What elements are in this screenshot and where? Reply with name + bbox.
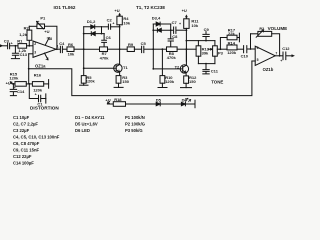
node A junction	[83, 27, 85, 68]
svg-text:10k: 10k	[191, 23, 198, 28]
svg-text:+: +	[35, 92, 37, 96]
svg-text:+U: +U	[114, 8, 119, 13]
svg-text:R1: R1	[17, 39, 23, 44]
svg-text:OZ1a: OZ1a	[35, 64, 46, 69]
svg-text:C3 22µF: C3 22µF	[13, 128, 30, 133]
svg-text:P1 100k/N: P1 100k/N	[125, 115, 145, 120]
bias rail to OZ1b pin 5	[29, 61, 252, 96]
op-amp bias column (pin 3 to bias node)	[28, 54, 30, 84]
svg-text:D1,2: D1,2	[87, 19, 96, 24]
capacitor C8 470p	[168, 30, 178, 47]
svg-text:R16: R16	[34, 72, 42, 77]
resistor R10 120k	[158, 48, 175, 87]
svg-text:D3,4: D3,4	[152, 15, 161, 20]
svg-text:5: 5	[257, 58, 259, 62]
svg-text:150: 150	[189, 79, 196, 84]
svg-text:OZ1b: OZ1b	[263, 67, 274, 72]
svg-text:C14: C14	[17, 89, 25, 94]
supply +U with resistor R11 10k	[182, 8, 200, 61]
resistor R13 39k	[196, 41, 210, 64]
svg-text:+U: +U	[182, 8, 187, 13]
capacitor C2 2,2u	[102, 17, 120, 29]
svg-text:T1: T1	[123, 65, 128, 70]
resistor R15 120k	[9, 72, 32, 87]
capacitor C9	[203, 27, 210, 40]
svg-text:6: 6	[257, 46, 259, 50]
svg-text:C8: C8	[172, 34, 178, 39]
svg-text:D6: D6	[182, 97, 188, 102]
svg-text:120k: 120k	[227, 50, 237, 55]
resistor R5 120k	[80, 68, 96, 85]
wire node C to R8	[153, 48, 166, 50]
svg-text:C5: C5	[141, 41, 147, 46]
resistor R7 470k	[100, 47, 110, 61]
svg-text:C7: C7	[172, 20, 178, 25]
parts list column 2	[75, 115, 105, 133]
wire node B to R9	[120, 48, 128, 50]
node A1 (inverting input junction)	[28, 45, 33, 47]
parts list column 1	[13, 115, 60, 166]
svg-text:R6: R6	[68, 42, 74, 47]
svg-text:D5: D5	[156, 97, 162, 102]
supply +U with resistor R4 10k	[114, 8, 130, 64]
diode D4	[152, 15, 174, 32]
op-amp OZ1a	[29, 29, 59, 68]
resistor R18	[113, 97, 155, 106]
svg-text:C6: C6	[106, 35, 112, 40]
svg-text:P2: P2	[259, 26, 265, 31]
diode D2	[83, 19, 104, 36]
svg-text:IO1 TL062: IO1 TL062	[54, 5, 76, 10]
label TONE	[211, 80, 223, 85]
svg-text:R2: R2	[24, 26, 30, 31]
svg-text:1,2k: 1,2k	[18, 48, 27, 53]
svg-text:+: +	[112, 21, 114, 25]
potentiometer P2 VOLUME	[251, 26, 288, 56]
svg-text:C10: C10	[241, 54, 249, 59]
capacitor C14 100u	[10, 83, 25, 96]
svg-text:R18: R18	[114, 97, 122, 102]
tone bottom wire	[198, 63, 215, 65]
transistor T2	[175, 49, 189, 73]
svg-text:8: 8	[50, 37, 52, 41]
wire R8 to node D	[177, 48, 186, 50]
svg-text:C4, C5, C10, C13 100nF: C4, C5, C10, C13 100nF	[13, 135, 60, 140]
svg-text:1,2k: 1,2k	[19, 32, 28, 37]
capacitor C13	[11, 45, 27, 59]
wire node E to R14	[220, 48, 227, 50]
LED circuit: +U arrow	[105, 97, 113, 104]
svg-text:120k: 120k	[86, 79, 96, 84]
label DISTORTION	[30, 106, 59, 111]
svg-text:C9: C9	[204, 27, 210, 32]
resistor R1 1,2k	[17, 39, 29, 54]
svg-text:39k: 39k	[202, 50, 209, 55]
svg-text:P3: P3	[218, 51, 224, 56]
T1 base wire from node A column	[83, 67, 114, 69]
svg-text:C12 22µF: C12 22µF	[13, 154, 32, 159]
svg-text:R14: R14	[228, 40, 236, 45]
svg-text:C9, C11 15nF: C9, C11 15nF	[13, 148, 40, 153]
resistor R16 120k with end bar	[32, 72, 48, 92]
svg-text:10k: 10k	[68, 51, 75, 56]
capacitor C1 10u with end bar	[29, 84, 46, 107]
svg-text:C12: C12	[282, 46, 290, 51]
resistor R14 120k	[227, 40, 237, 54]
capacitor C11	[203, 64, 219, 74]
node F (OZ1b inverting input)	[250, 34, 252, 50]
wire node A to R7	[84, 48, 100, 50]
resistor R3 150	[114, 72, 130, 88]
resistor R17 22k with end bar	[220, 27, 239, 49]
svg-text:C14 100µF: C14 100µF	[13, 161, 34, 166]
potentiometer P3	[208, 41, 223, 64]
capacitor C3	[4, 39, 18, 49]
resistor R2 1,2k	[19, 26, 32, 46]
svg-text:DISTORTION: DISTORTION	[30, 106, 59, 111]
parts list column 3	[125, 115, 145, 133]
resistor R6 10k	[67, 42, 84, 57]
input terminal arrow	[0, 44, 7, 47]
op-amp OZ1b	[252, 46, 278, 72]
svg-text:3: 3	[34, 50, 36, 54]
title IO1 TL062	[54, 5, 76, 10]
node E junction	[220, 48, 222, 50]
svg-text:120k: 120k	[9, 76, 19, 81]
svg-text:VOLUME: VOLUME	[268, 26, 288, 31]
svg-text:C6, C8 470pF: C6, C8 470pF	[13, 141, 40, 146]
svg-text:+U: +U	[6, 81, 11, 86]
capacitor C7 2,2u	[172, 20, 187, 33]
resistor R8 470k	[167, 47, 178, 60]
tone rail	[186, 40, 215, 42]
T2 base wire from node C column	[152, 68, 180, 70]
capacitor C12 22u	[280, 46, 291, 63]
svg-text:120k: 120k	[165, 79, 175, 84]
svg-text:+: +	[179, 22, 181, 26]
main line through tone section	[186, 48, 220, 50]
output terminal arrow	[292, 54, 295, 57]
svg-text:C2, C7 2,2µF: C2, C7 2,2µF	[13, 122, 38, 127]
svg-text:150: 150	[122, 79, 129, 84]
title T1, T2 KC238	[136, 5, 165, 10]
potentiometer P1	[29, 16, 57, 50]
capacitor C6 470p	[102, 34, 112, 47]
svg-text:T1, T2 KC238: T1, T2 KC238	[136, 5, 165, 10]
svg-text:C11: C11	[211, 68, 219, 73]
svg-text:+: +	[11, 41, 13, 45]
svg-text:470k: 470k	[100, 55, 110, 60]
svg-text:C3: C3	[4, 39, 10, 44]
capacitor C10	[237, 46, 255, 59]
capacitor C4	[59, 41, 67, 53]
diode D5	[156, 97, 181, 105]
svg-text:+U: +U	[44, 29, 49, 34]
bias node junction	[28, 83, 30, 85]
diode D3	[153, 22, 170, 26]
svg-text:22k: 22k	[228, 31, 235, 36]
output wire with junction	[275, 55, 283, 57]
svg-text:D6 LED: D6 LED	[75, 128, 90, 133]
node C junction column	[152, 24, 154, 69]
wire op-amp output to C4	[56, 48, 60, 50]
svg-text:+U: +U	[105, 97, 110, 102]
svg-text:R9: R9	[128, 42, 134, 47]
svg-text:10k: 10k	[123, 20, 130, 25]
wire R7 to node B	[108, 48, 120, 50]
svg-text:P1: P1	[40, 16, 46, 21]
svg-text:C1 10µF: C1 10µF	[13, 115, 30, 120]
svg-text:C4: C4	[59, 41, 65, 46]
svg-text:TONE: TONE	[211, 80, 223, 85]
svg-text:470k: 470k	[167, 55, 177, 60]
LED D6	[181, 97, 195, 107]
diode D1	[84, 25, 102, 29]
resistor R9	[127, 42, 134, 51]
svg-text:D1 – D4 KAY11: D1 – D4 KAY11	[75, 115, 105, 120]
svg-text:+: +	[280, 59, 282, 63]
capacitor C5	[134, 41, 153, 53]
bias divider: +U arrow	[6, 81, 15, 86]
svg-text:P2 100k/G: P2 100k/G	[125, 122, 145, 127]
svg-text:P3 50k/G: P3 50k/G	[125, 128, 143, 133]
svg-text:D5 Uz=1,6V: D5 Uz=1,6V	[75, 122, 98, 127]
svg-text:7: 7	[275, 51, 277, 55]
transistor T1	[114, 64, 129, 72]
svg-text:2: 2	[34, 42, 36, 46]
resistor R12 150	[181, 73, 198, 88]
